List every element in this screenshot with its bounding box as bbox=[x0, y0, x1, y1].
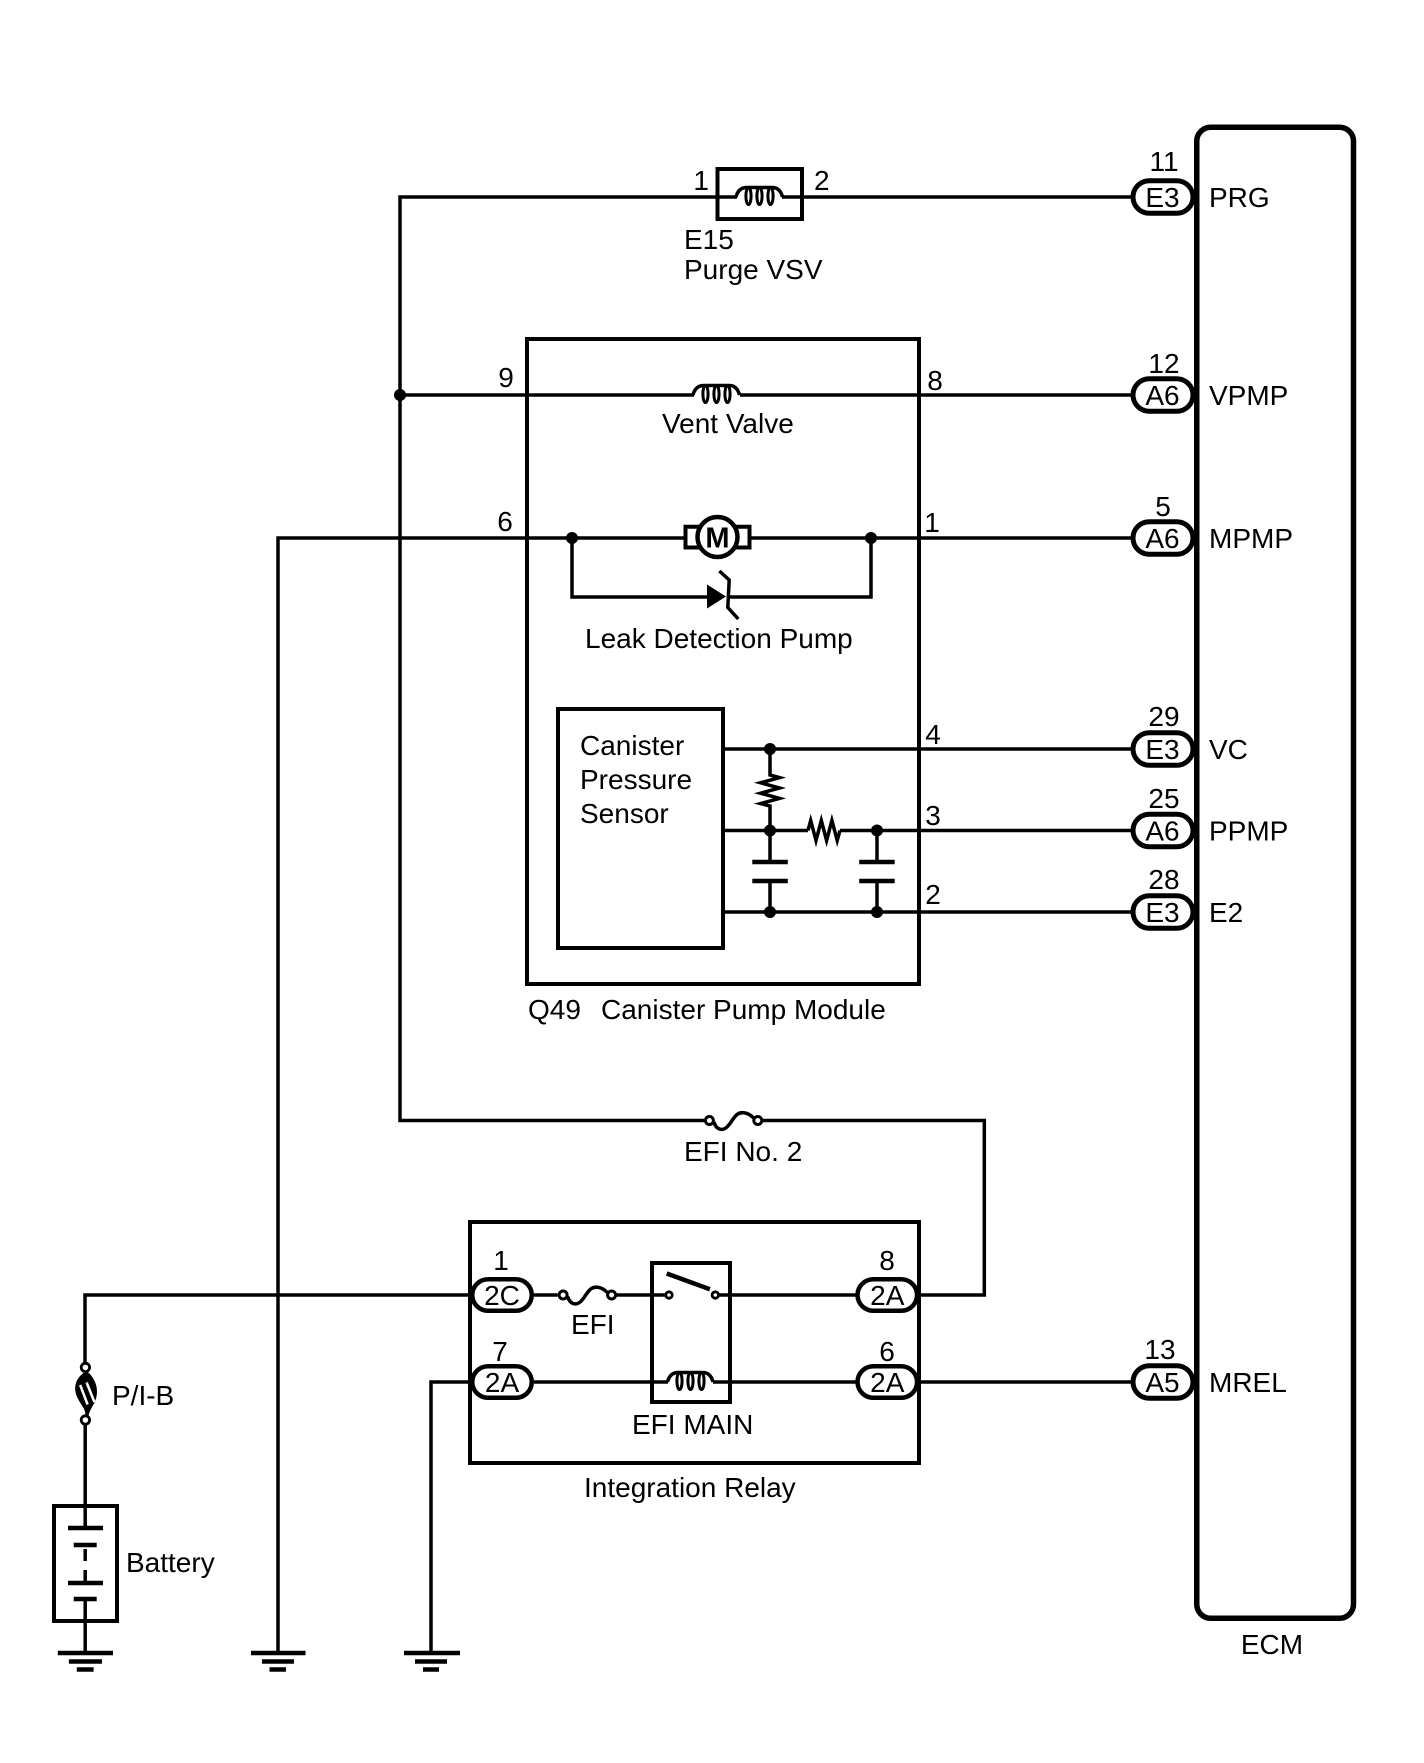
svg-text:ECM: ECM bbox=[1241, 1629, 1303, 1660]
svg-text:E3: E3 bbox=[1145, 734, 1179, 765]
relay connector 2A pin6 bbox=[858, 1366, 918, 1398]
motor M1 circle bbox=[698, 517, 738, 557]
svg-text:8: 8 bbox=[927, 365, 943, 396]
svg-text:2: 2 bbox=[814, 165, 830, 196]
wire leak pump row right to MPMP bbox=[751, 536, 1133, 540]
svg-text:1: 1 bbox=[693, 165, 709, 196]
fusible link P/I-B top contact bbox=[81, 1363, 89, 1371]
svg-text:A6: A6 bbox=[1145, 523, 1179, 554]
svg-text:P/I-B: P/I-B bbox=[112, 1380, 174, 1411]
resistor R1 vertical (sensor) bbox=[761, 749, 780, 831]
wire switch to relay pin8 2A bbox=[719, 1293, 856, 1297]
node dot pin3 right bbox=[871, 825, 883, 837]
wire battery to relay pin1 2C bbox=[85, 1295, 472, 1362]
capacitor C2 (right) bbox=[859, 831, 895, 913]
relay switch blade bbox=[667, 1274, 710, 1290]
Q49 canister pump module box bbox=[527, 339, 919, 984]
wire diode bypass right bbox=[729, 538, 872, 597]
svg-text:4: 4 bbox=[925, 719, 941, 750]
svg-text:5: 5 bbox=[1155, 491, 1171, 522]
svg-text:M: M bbox=[705, 523, 729, 555]
svg-text:9: 9 bbox=[498, 362, 514, 393]
relay coil (EFI MAIN) bbox=[668, 1373, 714, 1390]
fuse EFI No. 2 bbox=[705, 1113, 761, 1130]
svg-text:12: 12 bbox=[1148, 348, 1179, 379]
fusible link P/I-B body bbox=[75, 1371, 97, 1418]
wire sensor pin 4 to VC bbox=[725, 747, 1132, 751]
node dot pin3 left bbox=[764, 825, 776, 837]
purge VSV coil bbox=[736, 188, 783, 205]
svg-text:2: 2 bbox=[925, 879, 941, 910]
battery plate long top bbox=[68, 1526, 103, 1531]
node junction dot on vent valve wire bbox=[394, 389, 406, 401]
wire vent valve row (pin 9 to pin 8 to VPMP) bbox=[400, 393, 1132, 397]
battery plate long bottom bbox=[68, 1581, 103, 1586]
EFI MAIN relay inner box bbox=[652, 1263, 730, 1402]
svg-text:3: 3 bbox=[925, 800, 941, 831]
motor M1 right brush bracket bbox=[733, 527, 749, 548]
svg-text:MREL: MREL bbox=[1209, 1367, 1287, 1398]
canister pressure sensor box bbox=[558, 709, 723, 948]
svg-text:EFI No. 2: EFI No. 2 bbox=[684, 1136, 802, 1167]
ECM box bbox=[1197, 127, 1354, 1618]
resistor R2 horizontal (sensor) bbox=[808, 821, 840, 841]
svg-text:2A: 2A bbox=[485, 1367, 520, 1398]
svg-text:2C: 2C bbox=[484, 1280, 520, 1311]
svg-text:13: 13 bbox=[1144, 1334, 1175, 1365]
svg-text:VC: VC bbox=[1209, 734, 1248, 765]
svg-text:29: 29 bbox=[1148, 701, 1179, 732]
svg-text:E2: E2 bbox=[1209, 897, 1243, 928]
node dot pin4 bbox=[764, 743, 776, 755]
wire 2A6 to ECM MREL bbox=[920, 1380, 1132, 1384]
svg-text:Sensor: Sensor bbox=[580, 798, 669, 829]
svg-text:28: 28 bbox=[1148, 864, 1179, 895]
wire 2C to EFI fuse bbox=[534, 1293, 558, 1297]
wire EFI fuse to switch bbox=[617, 1293, 665, 1297]
svg-text:2A: 2A bbox=[870, 1280, 905, 1311]
ground (battery) bbox=[58, 1653, 113, 1670]
wire 2A7 to relay coil bbox=[534, 1380, 668, 1384]
ground (relay pin7 line) bbox=[404, 1653, 460, 1670]
wire from purge VSV pin1 down to EFI No.2 fuse bbox=[400, 197, 737, 1121]
svg-text:Canister: Canister bbox=[580, 730, 684, 761]
svg-text:1: 1 bbox=[493, 1245, 509, 1276]
battery bottom lead bbox=[83, 1599, 87, 1653]
fuse EFI bbox=[559, 1287, 616, 1304]
motor M1 left brush bracket bbox=[686, 527, 702, 548]
svg-text:Q49: Q49 bbox=[528, 994, 581, 1025]
svg-text:Battery: Battery bbox=[126, 1547, 215, 1578]
relay connector 2A pin8 bbox=[858, 1279, 918, 1311]
svg-text:6: 6 bbox=[879, 1336, 895, 1367]
battery dashed center line bbox=[83, 1549, 87, 1581]
svg-text:11: 11 bbox=[1149, 146, 1178, 177]
ECM connector E3 pin29 VC bbox=[1133, 733, 1193, 766]
svg-text:MPMP: MPMP bbox=[1209, 523, 1293, 554]
svg-text:A6: A6 bbox=[1145, 816, 1179, 847]
svg-text:EFI: EFI bbox=[571, 1309, 615, 1340]
wire sensor pin 3 to PPMP bbox=[725, 829, 1132, 833]
svg-text:EFI MAIN: EFI MAIN bbox=[632, 1409, 753, 1440]
svg-text:E3: E3 bbox=[1145, 897, 1179, 928]
ECM connector A6 pin25 PPMP bbox=[1133, 814, 1193, 847]
wire sensor pin 2 to E2 bbox=[725, 910, 1132, 914]
ECM connector A6 pin12 VPMP bbox=[1133, 379, 1193, 412]
battery plate short bottom bbox=[74, 1597, 97, 1602]
capacitor C1 (left) bbox=[752, 831, 788, 913]
wire leak pump row left + ground drop bbox=[278, 538, 685, 1653]
wire from EFI No.2 fuse to relay pin 8 bbox=[763, 1121, 984, 1296]
ECM connector A6 pin5 MPMP bbox=[1133, 522, 1193, 555]
svg-text:2A: 2A bbox=[870, 1367, 905, 1398]
svg-text:25: 25 bbox=[1148, 783, 1179, 814]
purge VSV E15 box bbox=[718, 169, 803, 219]
relay switch contact right bbox=[712, 1292, 718, 1298]
vent valve coil bbox=[693, 386, 740, 403]
node dot pin2 right bbox=[871, 906, 883, 918]
relay connector 2C pin1 bbox=[472, 1279, 532, 1311]
svg-text:Vent Valve: Vent Valve bbox=[662, 408, 794, 439]
relay switch contact left bbox=[666, 1292, 672, 1298]
ECM connector E3 pin11 PRG bbox=[1133, 181, 1193, 214]
fusible link P/I-B bottom contact bbox=[81, 1416, 89, 1424]
svg-text:Purge VSV: Purge VSV bbox=[684, 254, 823, 285]
wire relay coil to 2A6 bbox=[713, 1380, 856, 1384]
svg-text:A6: A6 bbox=[1145, 380, 1179, 411]
diode D1 triangle bbox=[707, 585, 726, 609]
svg-text:Integration Relay: Integration Relay bbox=[584, 1472, 796, 1503]
wire diode bypass left bbox=[572, 538, 707, 597]
svg-text:8: 8 bbox=[879, 1245, 895, 1276]
svg-text:1: 1 bbox=[924, 507, 940, 538]
relay connector 2A pin7 bbox=[472, 1366, 532, 1398]
svg-text:Canister Pump Module: Canister Pump Module bbox=[601, 994, 886, 1025]
ECM connector E3 pin28 E2 bbox=[1133, 896, 1193, 929]
battery box bbox=[54, 1506, 117, 1621]
svg-text:E15: E15 bbox=[684, 224, 734, 255]
svg-text:PRG: PRG bbox=[1209, 182, 1270, 213]
wire purge VSV pin2 to ECM PRG bbox=[782, 195, 1132, 199]
integration relay box bbox=[470, 1222, 919, 1463]
svg-text:7: 7 bbox=[492, 1336, 508, 1367]
ground (leak pump line) bbox=[251, 1653, 306, 1670]
wire relay pin7 row + ground drop bbox=[431, 1382, 472, 1653]
diode D1 cathode bar bbox=[719, 571, 738, 619]
battery plate short top bbox=[74, 1543, 97, 1548]
svg-text:A5: A5 bbox=[1145, 1367, 1179, 1398]
svg-text:Pressure: Pressure bbox=[580, 764, 692, 795]
svg-text:PPMP: PPMP bbox=[1209, 816, 1288, 847]
svg-text:Leak Detection Pump: Leak Detection Pump bbox=[585, 623, 853, 654]
svg-text:E3: E3 bbox=[1145, 182, 1179, 213]
node dot bypass right bbox=[865, 532, 877, 544]
battery lead from fusible link bbox=[83, 1425, 87, 1529]
node dot pin2 left bbox=[764, 906, 776, 918]
node dot bypass left bbox=[566, 532, 578, 544]
svg-text:6: 6 bbox=[497, 506, 513, 537]
ECM connector A5 pin13 MREL bbox=[1133, 1366, 1193, 1399]
svg-text:VPMP: VPMP bbox=[1209, 380, 1288, 411]
